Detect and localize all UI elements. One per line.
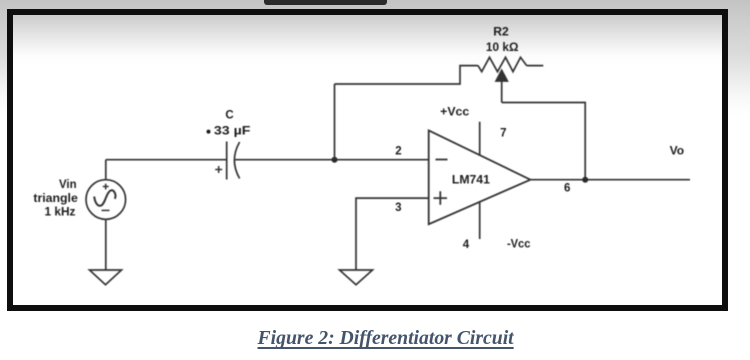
pin 7 lead (+Vcc) <box>479 122 481 155</box>
label LM741 <box>452 175 491 187</box>
pin number 6 <box>564 182 570 194</box>
ground (source) <box>90 270 122 285</box>
wire: pin 3 to ground <box>356 198 429 270</box>
label Vo <box>670 146 685 158</box>
svg-text:1 kHz: 1 kHz <box>45 207 76 219</box>
voltage source V1 (Vin triangle 1 kHz) <box>86 160 126 270</box>
svg-text:R2: R2 <box>493 26 509 38</box>
svg-text:+Vcc: +Vcc <box>440 107 470 119</box>
dark UI tab fragment at top <box>264 0 387 5</box>
label C <box>225 110 233 122</box>
op-amp U1 LM741 <box>429 130 531 224</box>
inverting input marker <box>436 159 448 161</box>
value .33 uF <box>207 125 251 137</box>
wire: input segment from source to capacitor <box>106 159 227 161</box>
pin number 3 <box>395 202 401 214</box>
svg-text:-Vcc: -Vcc <box>507 239 531 251</box>
svg-text:C: C <box>225 110 233 122</box>
wiper arrow of R2 <box>496 70 507 102</box>
wire: wiper to output node <box>502 103 586 180</box>
caption: Figure 2: Differentiator Circuit <box>11 327 750 350</box>
wire: output Vo <box>530 179 690 181</box>
label Vin triangle 1 kHz <box>33 179 78 218</box>
non-inverting input marker <box>434 191 448 205</box>
label +Vcc <box>440 107 470 119</box>
label -Vcc <box>507 239 531 251</box>
node B: output junction <box>582 177 588 183</box>
pin 4 lead (-Vcc) <box>479 202 481 239</box>
node A: junction of input wire and feedback <box>332 157 338 163</box>
resistor R2 (potentiometer) <box>478 57 527 71</box>
pin number 2 <box>395 146 401 158</box>
wire: feedback riser from node A <box>334 84 336 160</box>
svg-text:10 kΩ: 10 kΩ <box>486 42 519 54</box>
svg-text:triangle: triangle <box>33 193 78 205</box>
wire: feedback top horizontal <box>335 66 479 84</box>
pin number 7 <box>500 128 506 140</box>
svg-text:Vo: Vo <box>670 146 685 158</box>
svg-text:4: 4 <box>463 239 470 251</box>
wire: R2 right stub <box>527 65 544 67</box>
svg-text:2: 2 <box>395 146 401 158</box>
value 10 kOhm <box>486 42 519 54</box>
svg-text:LM741: LM741 <box>452 175 491 187</box>
wire: capacitor to op-amp inverting input <box>235 159 429 161</box>
ground (pin 3) <box>340 270 373 285</box>
svg-text:33 µF: 33 µF <box>214 125 251 137</box>
label R2 <box>493 26 509 38</box>
svg-text:Vin: Vin <box>59 179 77 191</box>
svg-text:3: 3 <box>395 202 401 214</box>
svg-text:7: 7 <box>500 128 506 140</box>
svg-text:6: 6 <box>564 182 570 194</box>
capacitor C <box>215 142 239 180</box>
pin number 4 <box>463 239 470 251</box>
